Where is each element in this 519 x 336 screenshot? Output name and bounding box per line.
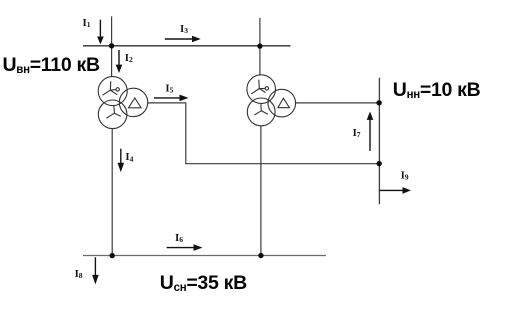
svg-text:I3: I3 xyxy=(180,23,188,35)
arrow I1 (down) xyxy=(97,20,104,45)
junction: T1 MV at 35 kV bus xyxy=(110,253,115,258)
arrow I6 (right) xyxy=(167,244,203,251)
svg-text:I8: I8 xyxy=(75,268,83,280)
arrow I3 (right) xyxy=(165,36,201,43)
wire: T2 LV lead to 10 kV bus xyxy=(295,102,379,104)
transformer T1 HV winding circle xyxy=(98,77,127,106)
T2 LV delta symbol xyxy=(278,98,290,108)
transformer T1 LV winding circle xyxy=(119,88,147,116)
junction: T2 HV at 110 kV bus xyxy=(257,43,262,48)
arrow I2 (down) xyxy=(116,50,123,73)
svg-text:Uвн=110 кВ: Uвн=110 кВ xyxy=(3,54,100,76)
arrow I4 (down) xyxy=(118,149,125,173)
transformer T2 HV winding circle xyxy=(247,75,276,104)
arrow I9 (right) xyxy=(380,187,412,194)
wire: T1 HV lead from top into bus xyxy=(111,16,113,77)
svg-text:I9: I9 xyxy=(401,169,409,181)
svg-text:Uнн=10 кВ: Uнн=10 кВ xyxy=(393,79,481,101)
bus НН (right 10 kV busbar, vertical) xyxy=(378,78,380,205)
transformer T2 LV winding circle xyxy=(268,89,296,117)
junction: T1 LV at 10 kV bus xyxy=(377,161,382,166)
transformer T2 MV winding circle xyxy=(247,98,275,126)
svg-text:I2: I2 xyxy=(125,52,133,64)
svg-text:I1: I1 xyxy=(83,17,91,29)
bus ВН (top 110 kV busbar) xyxy=(83,45,291,47)
wire: T1 LV lead (I5 path) to 10 kV bus xyxy=(148,103,380,164)
arrow I7 (up) xyxy=(367,112,374,151)
junction: T2 MV at 35 kV bus xyxy=(258,253,263,258)
wire: T2 HV lead from top through bus xyxy=(259,18,261,75)
T1 LV delta symbol xyxy=(129,98,142,108)
T2 HV star symbol with neutral xyxy=(251,80,268,94)
arrow I8 (down) xyxy=(92,257,99,284)
T1 HV star symbol with neutral xyxy=(103,81,120,95)
svg-text:I4: I4 xyxy=(125,151,133,163)
junction: T2 LV at 10 kV bus xyxy=(376,100,381,105)
svg-text:I5: I5 xyxy=(165,82,173,94)
arrow I5 (right) xyxy=(154,95,189,102)
T2 MV star symbol xyxy=(254,104,268,115)
bus СН (bottom 35 kV busbar) xyxy=(83,255,326,257)
wire: T1 MV lead down to 35 kV bus xyxy=(111,129,113,256)
junction: T1 HV at 110 kV bus xyxy=(109,43,114,48)
svg-text:I7: I7 xyxy=(353,127,361,139)
svg-text:I6: I6 xyxy=(175,232,183,244)
transformer T1 MV winding circle xyxy=(98,100,127,129)
T1 MV star symbol xyxy=(106,105,120,118)
svg-text:Uсн=35 кВ: Uсн=35 кВ xyxy=(160,272,247,294)
wire: T2 MV lead down to 35 kV bus xyxy=(260,126,262,256)
